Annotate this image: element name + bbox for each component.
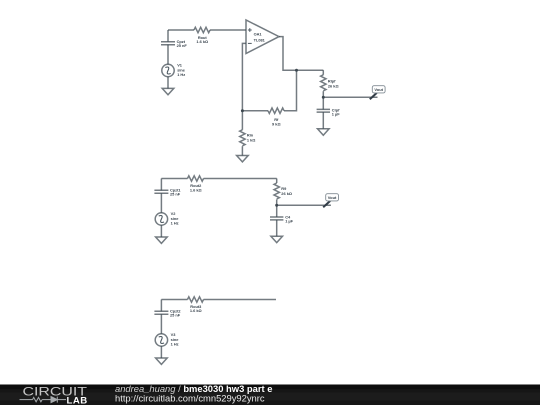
- wire Rin to ground: [241, 146, 243, 155]
- wire V2 to ground: [160, 225, 162, 237]
- svg-text:http://circuitlab.com/cmn529y9: http://circuitlab.com/cmn529y92ynrc: [115, 392, 265, 403]
- svg-text:LAB: LAB: [67, 395, 88, 405]
- flag Vout (top): [370, 86, 385, 100]
- ground (Rin): [237, 156, 249, 162]
- wire op-amp inverting input down: [242, 43, 246, 110]
- wire output to Rlpf: [322, 70, 324, 75]
- svg-text:Vout: Vout: [328, 195, 337, 200]
- wire Cpzt1 to V2: [160, 193, 162, 213]
- wire node Vout2 to flag: [277, 204, 331, 206]
- svg-text:9 kΩ: 9 kΩ: [272, 121, 281, 126]
- wire Rlpf to node Vout1: [322, 91, 324, 109]
- wire op-amp output: [279, 37, 323, 71]
- voltage source V1: [162, 64, 174, 76]
- svg-text:OA1: OA1: [254, 31, 263, 36]
- capacitor Cpzt2: [154, 311, 168, 314]
- ground (C4): [271, 236, 283, 242]
- wire Rout to op-amp + input: [210, 29, 246, 31]
- resistor Rin: [240, 130, 245, 146]
- wire Cpzt2 to V3: [160, 314, 162, 334]
- resistor R9: [274, 183, 279, 199]
- ground (V3): [156, 358, 168, 364]
- resistor Rf: [268, 108, 284, 113]
- wire Rout2 to R9: [204, 178, 277, 180]
- wire node A down to capacitor Cpzt: [167, 30, 169, 42]
- capacitor Cpzt: [161, 42, 175, 45]
- wire Cpzt to V1: [167, 45, 169, 65]
- resistor Rout2: [188, 176, 204, 181]
- capacitor Cpzt1: [154, 190, 168, 193]
- junction node Vout2: [275, 204, 278, 207]
- capacitor Clpf: [317, 109, 330, 112]
- svg-text:26 kΩ: 26 kΩ: [328, 84, 339, 89]
- junction node Vout1: [322, 96, 325, 99]
- voltage source V2: [155, 213, 167, 225]
- wire node A to resistor Rout: [168, 29, 194, 31]
- wire C4 to ground: [276, 220, 278, 236]
- resistor Rout: [194, 27, 210, 32]
- op-amp OA1: [246, 20, 279, 54]
- capacitor C4: [270, 217, 283, 220]
- svg-text:25 nF: 25 nF: [177, 43, 188, 48]
- svg-text:25 nF: 25 nF: [170, 313, 181, 318]
- svg-text:1 Hz: 1 Hz: [171, 342, 179, 347]
- resistor Rlpf: [321, 75, 326, 91]
- svg-text:1 µF: 1 µF: [332, 111, 340, 116]
- svg-text:Vout: Vout: [374, 87, 383, 92]
- ground (V1): [162, 88, 174, 94]
- wire V1 to ground: [167, 77, 169, 89]
- svg-text:TL081: TL081: [254, 37, 266, 42]
- resistor Rout3: [188, 297, 204, 302]
- junction inverting node: [241, 109, 244, 112]
- ground (V2): [156, 237, 168, 243]
- wire node B to resistor Rout2: [161, 178, 187, 180]
- svg-text:1 kΩ: 1 kΩ: [247, 138, 256, 143]
- svg-text:26 kΩ: 26 kΩ: [281, 191, 292, 196]
- svg-text:Rlpf: Rlpf: [328, 78, 336, 83]
- svg-text:1.6 kΩ: 1.6 kΩ: [190, 308, 202, 313]
- wire feedback tap down: [284, 70, 297, 111]
- wire node C to resistor Rout3: [161, 299, 187, 301]
- svg-text:25 nF: 25 nF: [170, 192, 181, 197]
- wire node Vout1 to flag: [323, 96, 377, 98]
- svg-text:1 Hz: 1 Hz: [171, 221, 179, 226]
- ground (Clpf): [318, 129, 330, 135]
- wire V3 to ground: [160, 346, 162, 358]
- wire Clpf to ground: [322, 112, 324, 129]
- voltage source V3: [155, 334, 167, 346]
- svg-text:1.6 kΩ: 1.6 kΩ: [196, 39, 208, 44]
- logo schematic row: wire, resistor, diode: [20, 397, 67, 403]
- svg-text:1.6 kΩ: 1.6 kΩ: [190, 187, 202, 192]
- svg-text:1 Hz: 1 Hz: [177, 72, 185, 77]
- wire top to R9: [276, 179, 278, 184]
- junction output/feedback: [295, 69, 298, 72]
- svg-text:1 µF: 1 µF: [285, 218, 293, 223]
- wire node B down to capacitor Cpzt1: [160, 179, 162, 191]
- wire node C down to capacitor Cpzt2: [160, 300, 162, 312]
- wire inverting node to Rin: [241, 111, 243, 130]
- wire R9 to node Vout2: [276, 199, 278, 217]
- svg-text:R9: R9: [281, 186, 287, 191]
- flag Vout (middle): [323, 194, 338, 208]
- wire Rf to inverting node: [242, 110, 268, 112]
- wire Rout3 stub right: [204, 299, 277, 301]
